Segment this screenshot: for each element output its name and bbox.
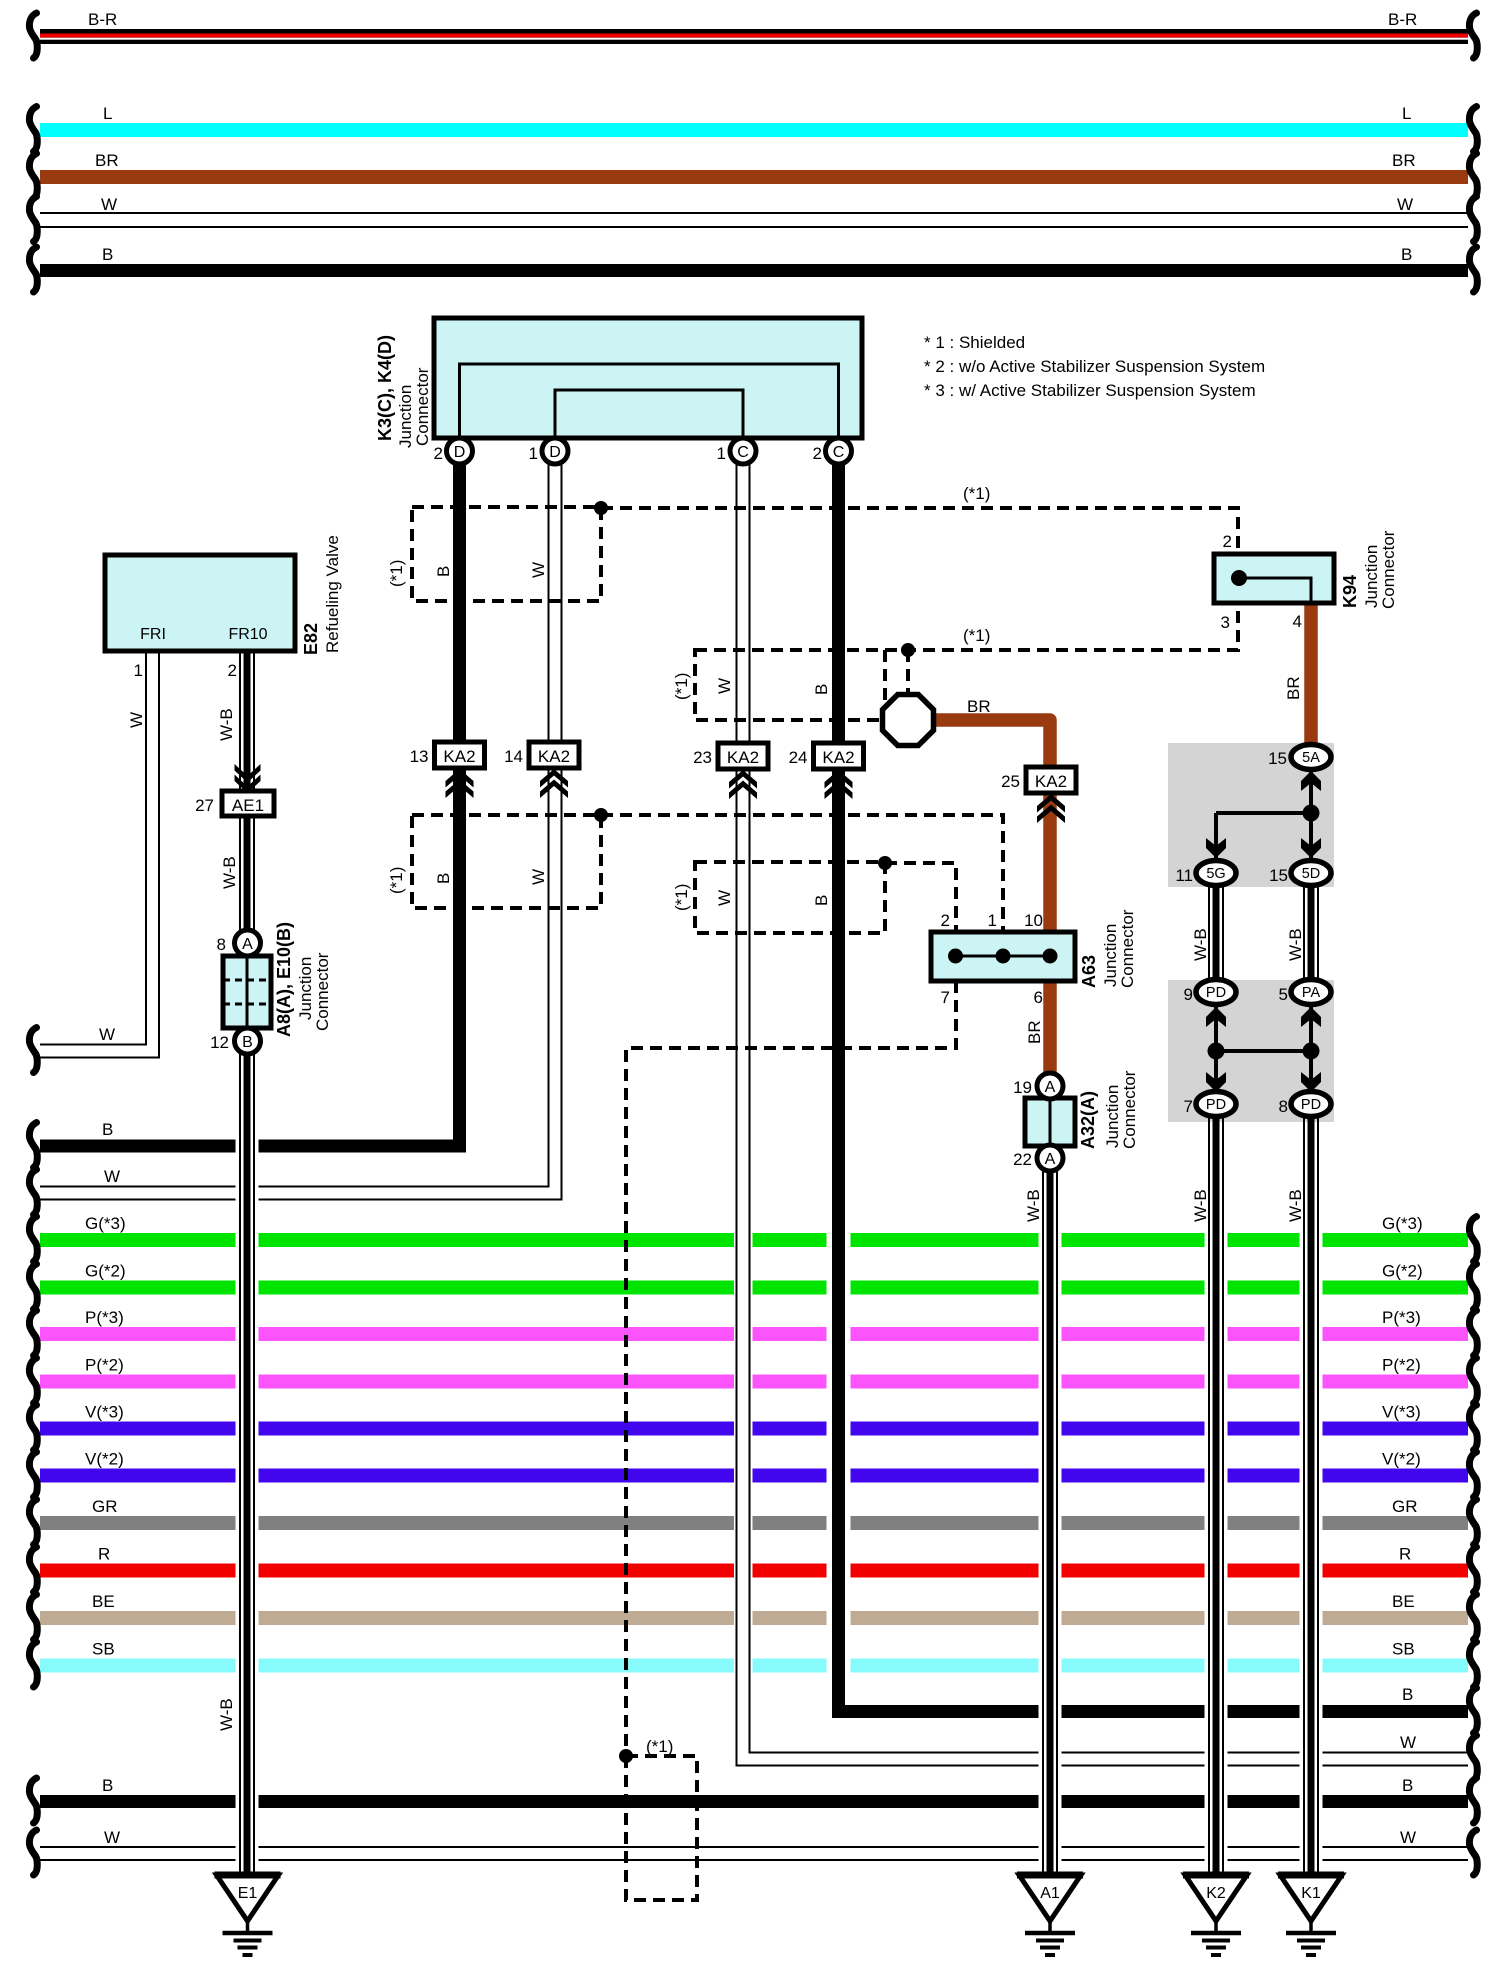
svg-text:Connector: Connector bbox=[1118, 909, 1137, 988]
internal wires PD/PA to PD/PD bbox=[1216, 1004, 1311, 1092]
internal wire 5A to branch dot bbox=[1216, 769, 1311, 861]
wire bus V(*2) bbox=[29, 1450, 1477, 1498]
svg-text:D: D bbox=[549, 444, 561, 461]
label (*1) on shield wire to K94 pin 3 bbox=[963, 626, 990, 645]
svg-text:A1: A1 bbox=[1040, 1885, 1060, 1902]
ground A1 bbox=[1017, 1875, 1083, 1955]
svg-text:W-B: W-B bbox=[1286, 1189, 1305, 1222]
internal wire K3 connecting 2D-2C bbox=[460, 364, 839, 438]
svg-text:Connector: Connector bbox=[413, 367, 432, 446]
label B in upper-left shield box bbox=[434, 566, 453, 577]
label A32(A) junction connector bbox=[1078, 1070, 1139, 1149]
svg-text:G(*3): G(*3) bbox=[85, 1214, 126, 1233]
svg-text:B: B bbox=[812, 895, 831, 906]
svg-text:W: W bbox=[104, 1167, 120, 1186]
junction connector K3(C),K4(D) box bbox=[434, 318, 862, 438]
arrow up into 5A bbox=[1301, 771, 1321, 791]
label W-B on K2 wire bbox=[1191, 1189, 1210, 1222]
shield dashed wire from lower-left box to A63 pin 1 bbox=[601, 815, 1003, 930]
label (*1) lower-middle shield box bbox=[672, 884, 691, 911]
svg-text:Connector: Connector bbox=[313, 952, 332, 1031]
svg-text:5A: 5A bbox=[1302, 750, 1320, 766]
svg-text:R: R bbox=[1399, 1545, 1411, 1564]
svg-text:KA2: KA2 bbox=[443, 747, 475, 766]
component E82 Refueling Valve box bbox=[105, 555, 295, 651]
label W-B below junction A8 bbox=[217, 1698, 236, 1731]
svg-text:13: 13 bbox=[410, 747, 429, 766]
arrow down into PD pin 7 bbox=[1206, 1072, 1226, 1092]
svg-text:(*1): (*1) bbox=[963, 626, 990, 645]
wire bus V(*3) bbox=[29, 1403, 1477, 1451]
wire BR from octagon to junction KA2-25 bbox=[930, 720, 1050, 767]
label W-B on 5G-PD wire bbox=[1191, 928, 1210, 961]
wire BR from junction A63 pin 6 to junction A32 pin 19 bbox=[1043, 981, 1057, 1075]
svg-text:SB: SB bbox=[1392, 1640, 1415, 1659]
svg-text:P(*3): P(*3) bbox=[85, 1308, 124, 1327]
wire bus B (right, from junction KA2-24 wire) bbox=[832, 1685, 1477, 1733]
svg-text:* 3 : w/ Active Stabilizer Sus: * 3 : w/ Active Stabilizer Suspension Sy… bbox=[924, 381, 1256, 400]
svg-text:8: 8 bbox=[1279, 1097, 1288, 1116]
label (*1) upper-middle shield box bbox=[672, 673, 691, 700]
shield dashed wire (*1) from middle box to K94 pin 3 bbox=[885, 605, 1238, 650]
wire W below KA2-14 (joins left W bus) bbox=[0, 0, 1, 1]
label W-B on 5D-PA wire bbox=[1286, 928, 1305, 961]
svg-text:G(*2): G(*2) bbox=[1382, 1262, 1423, 1281]
wire B below KA2-24 (joins right B bus) bbox=[832, 769, 845, 1718]
svg-text:PD: PD bbox=[1301, 1097, 1321, 1113]
arrow down into 5D bbox=[1301, 838, 1321, 858]
wire bus L (cyan) bbox=[29, 104, 1477, 152]
svg-text:5G: 5G bbox=[1206, 866, 1225, 882]
pin 1 label of E82 bbox=[134, 661, 143, 680]
pin 7 label of A63 bbox=[941, 988, 950, 1007]
connector 23 KA2 bbox=[693, 743, 768, 799]
junction connector K94 box bbox=[1214, 554, 1334, 603]
pin 6 label of A63 bbox=[1034, 988, 1043, 1007]
shielding dashed box (*1) around W/B of K3 pins 1C/2C bbox=[695, 650, 885, 720]
label (*1) at ground shield box bbox=[646, 1737, 673, 1756]
svg-text:2: 2 bbox=[434, 444, 443, 463]
wire W-B from PD pin 8 to ground K1 bbox=[1304, 1115, 1318, 1875]
svg-text:V(*3): V(*3) bbox=[85, 1403, 124, 1422]
svg-text:A32(A): A32(A) bbox=[1078, 1091, 1098, 1149]
svg-text:D: D bbox=[454, 444, 466, 461]
svg-text:W: W bbox=[99, 1025, 115, 1044]
svg-text:A: A bbox=[1045, 1151, 1056, 1168]
label (*1) on shield wire to K94 bbox=[963, 484, 990, 503]
svg-text:GR: GR bbox=[92, 1497, 118, 1516]
pin 2 label of E82 bbox=[228, 661, 237, 680]
svg-text:1: 1 bbox=[988, 911, 997, 930]
svg-text:PA: PA bbox=[1302, 985, 1321, 1001]
svg-text:BR: BR bbox=[95, 151, 119, 170]
note *3 bbox=[924, 381, 1256, 400]
internal wire K3 connecting 1D-1C bbox=[555, 390, 743, 438]
white isolation gaps at wire crossings bbox=[236, 1139, 1323, 1862]
wire bus GR bbox=[29, 1497, 1477, 1545]
svg-text:15: 15 bbox=[1269, 866, 1288, 885]
svg-text:B: B bbox=[102, 1776, 113, 1795]
svg-text:FRI: FRI bbox=[140, 626, 166, 643]
wire W-B from 5G to PD pin 9 bbox=[1209, 884, 1223, 981]
label A8(A),E10(B) junction connector bbox=[274, 922, 332, 1037]
svg-text:Refueling Valve: Refueling Valve bbox=[323, 535, 342, 653]
wire bus P(*3) bbox=[29, 1308, 1477, 1356]
svg-text:B: B bbox=[812, 684, 831, 695]
pin 8 A of junction A8 bbox=[217, 930, 261, 956]
wire bus G(*2) bbox=[29, 1262, 1477, 1310]
pin 12 B of junction A8 bbox=[210, 1028, 260, 1054]
svg-text:P(*2): P(*2) bbox=[85, 1356, 124, 1375]
svg-text:19: 19 bbox=[1013, 1078, 1032, 1097]
label W in lower-left shield box bbox=[529, 869, 548, 885]
wire W-B from AE1 to junction A8 pin 8 bbox=[240, 816, 254, 932]
wire bus BR (brown) bbox=[29, 151, 1477, 199]
label K94 junction connector bbox=[1340, 530, 1398, 609]
wire W from E82 pin 1 (FRI) to left edge bbox=[29, 0, 159, 1073]
svg-text:PD: PD bbox=[1206, 1097, 1226, 1113]
label E82 Refueling Valve bbox=[301, 535, 342, 655]
shield termination dashed box near ground E1 bbox=[626, 1756, 697, 1900]
wire W from K3 pin 1C to junction KA2-23 bbox=[737, 451, 750, 743]
svg-text:22: 22 bbox=[1013, 1150, 1032, 1169]
svg-text:BE: BE bbox=[1392, 1592, 1415, 1611]
arrow into connector AE1 bbox=[235, 764, 261, 793]
junction dot lower-middle shield box bbox=[878, 856, 892, 870]
svg-text:B: B bbox=[1401, 245, 1412, 264]
svg-text:(*1): (*1) bbox=[387, 867, 406, 894]
junction dot on shield wire above octagon bbox=[901, 643, 915, 657]
note *2 bbox=[924, 357, 1265, 376]
svg-text:C: C bbox=[737, 444, 749, 461]
svg-text:(*1): (*1) bbox=[963, 484, 990, 503]
svg-text:23: 23 bbox=[693, 748, 712, 767]
svg-text:W-B: W-B bbox=[217, 708, 236, 741]
label W in upper-middle shield box bbox=[715, 678, 734, 694]
svg-text:3: 3 bbox=[1221, 613, 1230, 632]
wire W below KA2-23 (joins right W bus) bbox=[737, 769, 750, 1767]
label W-B on FR10 wire bbox=[217, 708, 236, 741]
label B in lower-left shield box bbox=[434, 873, 453, 884]
svg-text:K94: K94 bbox=[1340, 575, 1360, 608]
wire bus W (bottom full width) bbox=[29, 1828, 1477, 1875]
svg-text:A8(A), E10(B): A8(A), E10(B) bbox=[274, 922, 294, 1037]
svg-text:B: B bbox=[1402, 1776, 1413, 1795]
svg-text:W: W bbox=[101, 195, 117, 214]
svg-text:2: 2 bbox=[813, 444, 822, 463]
label BR on octagon wire bbox=[967, 697, 991, 716]
label W-B between AE1 and A8 bbox=[220, 856, 239, 889]
junction dots in gray box 2 bbox=[1208, 1043, 1320, 1060]
junction dot at ground shield box corner bbox=[619, 1749, 633, 1763]
svg-text:5: 5 bbox=[1279, 985, 1288, 1004]
pin 5 PA terminal bbox=[1279, 980, 1331, 1005]
svg-text:4: 4 bbox=[1293, 612, 1302, 631]
wire W-B from 5D to PA pin 5 bbox=[1304, 884, 1318, 981]
shield dashed wire from A63 pin 7 to ground shield box bbox=[626, 981, 956, 1756]
pin 9 PD terminal bbox=[1184, 980, 1236, 1005]
svg-text:Connector: Connector bbox=[1120, 1070, 1139, 1149]
svg-text:KA2: KA2 bbox=[727, 748, 759, 767]
svg-text:SB: SB bbox=[92, 1640, 115, 1659]
label (*1) lower-left shield box bbox=[387, 867, 406, 894]
svg-text:B-R: B-R bbox=[88, 10, 117, 29]
shield dashed wire from lower-middle box to A63 pin 2 bbox=[885, 863, 956, 930]
svg-text:BE: BE bbox=[92, 1592, 115, 1611]
svg-text:(*1): (*1) bbox=[646, 1737, 673, 1756]
wire bus W (left, from junction KA2-14 wire) bbox=[29, 769, 561, 1215]
svg-text:K3(C), K4(D): K3(C), K4(D) bbox=[375, 335, 395, 441]
pin 15 5D terminal bbox=[1269, 861, 1331, 886]
label B in upper-middle shield box bbox=[812, 684, 831, 695]
wire bus BE bbox=[29, 1592, 1477, 1640]
svg-text:2: 2 bbox=[1223, 532, 1232, 551]
wire bus G(*3) bbox=[29, 1214, 1477, 1262]
svg-text:W: W bbox=[127, 712, 146, 728]
shield dashed wire (*1) from box to K94 pin 2 bbox=[601, 508, 1238, 552]
label W in lower-middle shield box bbox=[715, 890, 734, 906]
junction dot on shield box corner bbox=[594, 501, 608, 515]
pin 1 label of A63 bbox=[988, 911, 997, 930]
svg-text:W: W bbox=[529, 869, 548, 885]
arrow up into PD pin 9 bbox=[1206, 1007, 1226, 1027]
wire bus B-R (black/red striped) top bbox=[29, 10, 1477, 58]
connector AE1 bbox=[195, 791, 274, 816]
svg-text:1: 1 bbox=[717, 444, 726, 463]
octagon shield terminal bbox=[883, 695, 934, 746]
svg-text:7: 7 bbox=[941, 988, 950, 1007]
label W on FRI wire bbox=[127, 712, 146, 728]
svg-text:* 1 : Shielded: * 1 : Shielded bbox=[924, 333, 1025, 352]
wire bus SB bbox=[29, 1640, 1477, 1688]
shielding dashed box (*1) around B/W of K3 pins 2D/1D bbox=[412, 507, 601, 601]
svg-text:W: W bbox=[1400, 1828, 1416, 1847]
svg-text:P(*2): P(*2) bbox=[1382, 1356, 1421, 1375]
svg-text:(*1): (*1) bbox=[672, 673, 691, 700]
svg-text:B: B bbox=[434, 873, 453, 884]
wire BR from junction KA2-25 to junction A63 pin 10 bbox=[1043, 793, 1057, 932]
svg-text:W: W bbox=[1400, 1733, 1416, 1752]
wire W from K3 pin 1D to junction KA2-14 bbox=[549, 451, 562, 742]
svg-text:GR: GR bbox=[1392, 1497, 1418, 1516]
pin 2 C of K4 bbox=[813, 438, 852, 464]
svg-text:6: 6 bbox=[1034, 988, 1043, 1007]
svg-text:W: W bbox=[715, 890, 734, 906]
arrow down into PD pin 8 bbox=[1301, 1072, 1321, 1092]
svg-text:W: W bbox=[529, 562, 548, 578]
svg-text:A: A bbox=[242, 936, 253, 953]
svg-text:W-B: W-B bbox=[220, 856, 239, 889]
svg-text:24: 24 bbox=[789, 748, 808, 767]
connector 25 KA2 bbox=[1001, 767, 1076, 823]
label W in upper-left shield box bbox=[529, 562, 548, 578]
svg-text:C: C bbox=[833, 444, 845, 461]
svg-text:W: W bbox=[1397, 195, 1413, 214]
svg-text:BR: BR bbox=[1392, 151, 1416, 170]
svg-text:BR: BR bbox=[1284, 676, 1303, 700]
svg-text:8: 8 bbox=[217, 935, 226, 954]
wire bus B (left, from junction KA2-13 wire) bbox=[29, 1120, 466, 1168]
shield gray box (PD/PA/PD/PD) bbox=[1168, 980, 1334, 1122]
svg-text:KA2: KA2 bbox=[822, 748, 854, 767]
pin 11 5G terminal bbox=[1175, 861, 1236, 886]
svg-text:V(*2): V(*2) bbox=[85, 1450, 124, 1469]
svg-text:B-R: B-R bbox=[1388, 10, 1417, 29]
label W-B on K1 wire bbox=[1286, 1189, 1305, 1222]
pin 4 label of K94 bbox=[1293, 612, 1302, 631]
pin 2 D of K3 bbox=[434, 438, 473, 464]
svg-text:* 2 : w/o Active Stabilizer Su: * 2 : w/o Active Stabilizer Suspension S… bbox=[924, 357, 1265, 376]
svg-text:5D: 5D bbox=[1302, 866, 1321, 882]
connector 24 KA2 bbox=[789, 743, 864, 799]
svg-text:BR: BR bbox=[1025, 1020, 1044, 1044]
svg-text:E1: E1 bbox=[238, 1885, 258, 1902]
svg-text:W-B: W-B bbox=[1191, 928, 1210, 961]
svg-text:L: L bbox=[1402, 104, 1411, 123]
svg-text:1: 1 bbox=[134, 661, 143, 680]
svg-text:14: 14 bbox=[504, 747, 523, 766]
svg-text:Connector: Connector bbox=[1379, 530, 1398, 609]
svg-text:9: 9 bbox=[1184, 985, 1193, 1004]
wire W-B from junction A8 pin 12 to ground E1 bbox=[240, 1052, 254, 1875]
svg-text:V(*2): V(*2) bbox=[1382, 1450, 1421, 1469]
label W-B below A32 bbox=[1024, 1189, 1043, 1222]
shield dashed stub to octagon bbox=[906, 650, 910, 696]
pin 7 PD terminal bbox=[1184, 1092, 1236, 1117]
svg-text:B: B bbox=[102, 1120, 113, 1139]
svg-text:B: B bbox=[102, 245, 113, 264]
svg-text:A: A bbox=[1045, 1079, 1056, 1096]
pin 2 label of A63 bbox=[941, 911, 950, 930]
pin 1 C of K4 bbox=[717, 438, 756, 464]
pin 22 A of A32 bbox=[1013, 1145, 1063, 1171]
svg-text:7: 7 bbox=[1184, 1097, 1193, 1116]
svg-text:R: R bbox=[98, 1545, 110, 1564]
svg-text:W: W bbox=[104, 1828, 120, 1847]
arrow down into 5G bbox=[1206, 838, 1226, 858]
svg-text:B: B bbox=[1402, 1685, 1413, 1704]
wire W-B from junction A32 pin 22 to ground A1 bbox=[1043, 1168, 1057, 1875]
label BR on wire above A63 bbox=[1025, 1020, 1044, 1044]
svg-text:E82: E82 bbox=[301, 623, 321, 655]
wire B below KA2-13 to left B bus bbox=[453, 768, 466, 1146]
svg-text:AE1: AE1 bbox=[232, 796, 264, 815]
svg-text:G(*2): G(*2) bbox=[85, 1262, 126, 1281]
svg-text:L: L bbox=[103, 104, 112, 123]
svg-text:11: 11 bbox=[1175, 866, 1193, 885]
label K3(C),K4(D) junction connector bbox=[375, 335, 432, 448]
wire bus P(*2) bbox=[29, 1356, 1477, 1404]
svg-text:B: B bbox=[434, 566, 453, 577]
wire bus B (black) top bbox=[29, 245, 1477, 292]
wire W-B from E82 pin 2 (FR10) to connector AE1 bbox=[240, 651, 254, 791]
svg-text:V(*3): V(*3) bbox=[1382, 1403, 1421, 1422]
svg-text:W-B: W-B bbox=[217, 1698, 236, 1731]
label (*1) upper-left shield box bbox=[387, 560, 406, 587]
svg-text:B: B bbox=[242, 1034, 253, 1051]
svg-text:BR: BR bbox=[967, 697, 991, 716]
shield gray box (5A/5G/5D) bbox=[1168, 743, 1334, 887]
junction connector A32(A) box bbox=[1025, 1098, 1075, 1146]
svg-text:P(*3): P(*3) bbox=[1382, 1308, 1421, 1327]
svg-text:W-B: W-B bbox=[1286, 928, 1305, 961]
ground E1 bbox=[215, 1875, 281, 1955]
shielding dashed box (*1) lower-middle around W/B wires bbox=[695, 862, 885, 933]
shielding dashed box (*1) lower-left around B/W wires bbox=[412, 815, 601, 908]
svg-text:27: 27 bbox=[195, 796, 214, 815]
wire bus B (bottom full width) bbox=[29, 1776, 1477, 1823]
svg-text:10: 10 bbox=[1024, 911, 1043, 930]
svg-text:A63: A63 bbox=[1079, 955, 1099, 988]
svg-text:W-B: W-B bbox=[1024, 1189, 1043, 1222]
wire B from K3 pin 2D to junction KA2-13 bbox=[453, 451, 466, 742]
svg-text:2: 2 bbox=[941, 911, 950, 930]
wire B from K3 pin 2C to junction KA2-24 bbox=[832, 451, 845, 743]
svg-text:12: 12 bbox=[210, 1033, 229, 1052]
svg-text:15: 15 bbox=[1268, 749, 1287, 768]
svg-text:W: W bbox=[715, 678, 734, 694]
junction dot lower-left shield box bbox=[594, 808, 608, 822]
svg-text:K2: K2 bbox=[1206, 1885, 1226, 1902]
svg-text:W-B: W-B bbox=[1191, 1189, 1210, 1222]
note *1 Shielded bbox=[924, 333, 1025, 352]
wire bus W (white double line) top bbox=[29, 195, 1477, 242]
wire bus W (right, from junction KA2-23 wire) bbox=[736, 1733, 1478, 1781]
svg-text:(*1): (*1) bbox=[672, 884, 691, 911]
svg-text:(*1): (*1) bbox=[387, 560, 406, 587]
label B in lower-middle shield box bbox=[812, 895, 831, 906]
arrow up into PA pin 5 bbox=[1301, 1007, 1321, 1027]
svg-text:25: 25 bbox=[1001, 772, 1020, 791]
svg-text:KA2: KA2 bbox=[1035, 772, 1067, 791]
pin 19 A of A32 bbox=[1013, 1073, 1063, 1099]
pin 15 5A terminal bbox=[1268, 745, 1331, 770]
junction connector A63 box bbox=[931, 932, 1075, 981]
ground K2 bbox=[1183, 1875, 1249, 1955]
pin 1 D of K3 bbox=[529, 438, 568, 464]
pin 8 PD terminal bbox=[1279, 1092, 1331, 1117]
svg-text:PD: PD bbox=[1206, 985, 1226, 1001]
wire BR from K94 pin 4 to 5A bbox=[1304, 603, 1318, 746]
svg-text:K1: K1 bbox=[1301, 1885, 1321, 1902]
label A63 junction connector bbox=[1079, 909, 1137, 988]
connector 14 KA2 bbox=[504, 742, 579, 798]
junction dot in gray box 1 bbox=[1303, 805, 1320, 822]
pin 2 label of K94 bbox=[1223, 532, 1232, 551]
connector 13 KA2 bbox=[410, 742, 485, 798]
svg-text:G(*3): G(*3) bbox=[1382, 1214, 1423, 1233]
svg-text:1: 1 bbox=[529, 444, 538, 463]
wire bus R bbox=[29, 1545, 1477, 1593]
pin 10 label of A63 bbox=[1024, 911, 1043, 930]
pin 3 label of K94 bbox=[1221, 613, 1230, 632]
svg-text:2: 2 bbox=[228, 661, 237, 680]
label BR on K94 pin 4 wire bbox=[1284, 676, 1303, 700]
junction connector A8(A),E10(B) grid box bbox=[223, 956, 271, 1028]
svg-text:FR10: FR10 bbox=[228, 626, 267, 643]
svg-text:KA2: KA2 bbox=[538, 747, 570, 766]
ground K1 bbox=[1278, 1875, 1344, 1955]
wire W-B from PD pin 7 to ground K2 bbox=[1209, 1115, 1223, 1875]
